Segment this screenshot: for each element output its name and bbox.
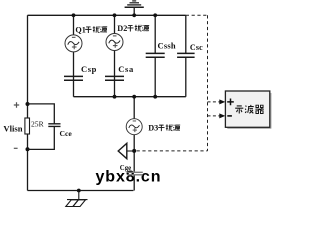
wire left rail: [27, 15, 29, 190]
label D2干扰源: [117, 24, 149, 33]
svg-text:Csp: Csp: [81, 64, 97, 74]
label - (LISN bottom polarity): [14, 147, 18, 149]
dashed arrow to scope minus: [208, 115, 220, 117]
svg-text:Csa: Csa: [118, 64, 134, 74]
oscilloscope box: [225, 91, 269, 127]
capacitor Csc: [177, 53, 195, 57]
AC source D2: [106, 34, 123, 51]
svg-text:Csc: Csc: [190, 43, 203, 52]
node Cssh top: [153, 13, 157, 17]
earth ground top: [125, 1, 144, 15]
dashed wire from D3 node: [137, 150, 208, 152]
wire top bus: [28, 14, 186, 16]
label scope + terminal: [227, 99, 234, 106]
node bottom ground junction: [77, 189, 81, 193]
capacitor Csa: [105, 76, 124, 80]
svg-text:D2: D2: [117, 24, 127, 33]
oscilloscope box shadow: [227, 93, 271, 129]
node earth stub: [132, 13, 136, 17]
wire probe stub: [127, 150, 134, 152]
svg-text:ybx8.cn: ybx8.cn: [96, 169, 162, 186]
node Cssh bottom: [153, 95, 157, 99]
svg-text:Q1: Q1: [75, 25, 85, 34]
node D2 bottom: [113, 95, 117, 99]
resistor 25R: [25, 118, 30, 134]
svg-text:Cssh: Cssh: [158, 41, 176, 51]
capacitor Csp: [64, 76, 83, 80]
svg-text:Vlisn: Vlisn: [3, 123, 22, 133]
label Q1干扰源: [75, 25, 107, 34]
wire middle bus: [74, 96, 186, 98]
node Q1 top: [72, 13, 76, 17]
node LISN top: [26, 102, 30, 106]
label D3干扰源: [148, 124, 180, 133]
node D3 top: [132, 95, 136, 99]
dashed wire top to scope: [186, 14, 208, 16]
capacitor Cssh: [146, 53, 165, 57]
svg-text:D3: D3: [148, 124, 158, 133]
node D3 lower junction: [132, 149, 136, 153]
dashed wire scope vertical: [207, 15, 209, 151]
probe triangle: [118, 143, 127, 158]
svg-text:25R: 25R: [31, 119, 45, 128]
wire bottom: [28, 190, 134, 192]
capacitor Cce: [48, 124, 60, 127]
wire Cssh branch: [154, 15, 156, 96]
AC source D3: [126, 119, 142, 135]
wire D3 branch: [133, 97, 135, 191]
chassis ground: [66, 191, 88, 207]
node D2 top: [113, 13, 117, 17]
label + (LISN top polarity): [14, 102, 19, 107]
label 示波器: [235, 105, 264, 114]
node LISN bottom: [26, 147, 30, 151]
dashed arrow to scope plus: [208, 101, 220, 103]
wire Cce loop: [28, 104, 55, 149]
wire D2 branch: [114, 15, 116, 96]
wire Q1 branch: [73, 15, 75, 96]
AC source Q1: [65, 35, 82, 52]
label scope - terminal: [227, 115, 232, 117]
svg-text:Cce: Cce: [60, 129, 73, 138]
capacitor Cge: [127, 172, 143, 175]
wire Csc branch: [185, 15, 187, 96]
